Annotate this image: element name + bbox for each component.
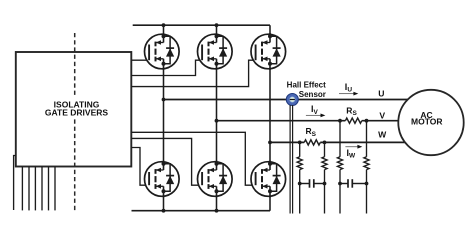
filter capacitor C1 (W sense) [300,179,325,188]
svg-text:W: W [378,129,387,139]
MOSFET Q3 top W [251,33,286,70]
filter capacitor C2 (V sense) [340,179,367,188]
gate wire to Q6 (bottom W) [131,132,255,185]
svg-text:Hall Effect: Hall Effect [287,80,326,89]
label Hall Effect Sensor [287,80,326,98]
node: C1 left junction [298,182,302,186]
filter resistor W-shunt left [297,157,302,170]
hall sensor output leads [290,105,293,214]
Hall effect current sensor on phase U [286,94,298,106]
node: top rail leg U junction [162,23,166,27]
leg V vertical wire [216,25,218,211]
node: C2 right junction [365,182,369,186]
filter leg wire V-shunt left [339,121,341,214]
leg W vertical wire [269,25,271,211]
node: C1 right junction [323,182,327,186]
shunt resistor RS in phase W [304,140,320,145]
node: W shunt right end [323,141,327,145]
filter leg wire W-shunt left [299,142,301,213]
filter resistor V-shunt right [364,157,369,170]
gate wire to Q3 (top W) [131,60,255,86]
label IW with arrow [345,146,358,148]
filter leg wire V-shunt right [366,121,368,214]
node: C2 left junction [338,182,342,186]
node: phase U junction [162,98,166,102]
phase W wire to motor [270,141,407,143]
node: bottom rail leg V junction [215,209,219,213]
phase U wire to motor [164,99,410,101]
node: V shunt left end [338,119,342,123]
gate wire to Q4 (bottom U) [131,148,149,186]
MOSFET Q1 top U [145,33,180,70]
AC motor M1 [398,90,463,155]
svg-text:V: V [379,111,385,121]
left side pin wire [14,156,16,211]
node: top rail leg V junction [215,23,219,27]
label ISOLATING GATE DRIVERS [44,95,109,119]
label IV with arrow [311,104,319,116]
MOSFET Q2 top V [198,33,233,70]
phase V wire to motor [217,120,400,122]
isolation barrier dashed line [74,33,76,212]
filter resistor V-shunt left [337,157,342,170]
node: phase V junction [215,119,219,123]
DC bus positive rail [133,24,270,26]
node: bottom rail leg U junction [162,209,166,213]
MOSFET Q6 bottom W [251,161,286,198]
filter leg wire W-shunt right [324,142,326,213]
leg U vertical wire [163,25,165,211]
gate driver block U1 box [16,52,132,167]
gate wire to Q2 (top V) [131,60,202,75]
label IU with arrow [345,82,353,94]
control input pins of gate driver [22,167,55,211]
svg-text:GATE DRIVERS: GATE DRIVERS [45,108,108,118]
DC bus negative rail [132,210,271,212]
shunt resistor RS in phase V [345,118,361,123]
gate wire to Q5 (bottom V) [131,138,202,185]
svg-text:MOTOR: MOTOR [411,117,442,127]
filter resistor W-shunt right [322,157,327,170]
svg-text:Sensor: Sensor [299,90,326,99]
node: W shunt left end [298,141,302,145]
MOSFET Q5 bottom V [198,161,233,198]
svg-text:U: U [378,89,384,99]
node: phase W junction [268,141,272,145]
node: V shunt right end [365,119,369,123]
gate wire to Q1 (top U) [131,59,149,61]
MOSFET Q4 bottom U [145,161,180,198]
